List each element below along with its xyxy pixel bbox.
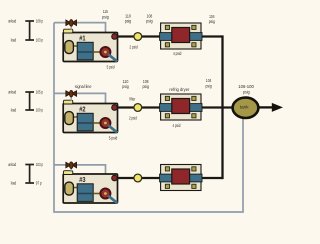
svg-text:#1: #1 bbox=[79, 33, 85, 42]
discharge node row 3 bbox=[112, 175, 118, 181]
svg-text:unload: unload bbox=[8, 18, 16, 23]
svg-text:100 p: 100 p bbox=[36, 107, 44, 112]
wire: row 1 discharge pipe bbox=[115, 35, 223, 37]
svg-text:2 psid: 2 psid bbox=[130, 45, 138, 50]
svg-text:108psig: 108psig bbox=[146, 14, 153, 24]
svg-text:103 p: 103 p bbox=[36, 37, 44, 42]
svg-text:unload: unload bbox=[8, 162, 16, 167]
filter F1 bbox=[134, 33, 142, 41]
svg-text:5 psid: 5 psid bbox=[109, 136, 118, 141]
filter F3 bbox=[134, 174, 142, 182]
dryer D2 bbox=[160, 94, 202, 120]
svg-text:2 psid: 2 psid bbox=[129, 115, 137, 120]
svg-text:5 psid: 5 psid bbox=[107, 64, 115, 69]
svg-text:refrig dryer: refrig dryer bbox=[169, 87, 189, 92]
svg-text:load: load bbox=[11, 180, 17, 185]
pressure band indicator row 2 bbox=[25, 92, 34, 110]
svg-text:signal line: signal line bbox=[75, 84, 92, 89]
compressor package #1 bbox=[63, 29, 117, 61]
svg-text:104psig: 104psig bbox=[206, 78, 213, 89]
svg-text:load: load bbox=[11, 107, 17, 112]
svg-text:104psig: 104psig bbox=[209, 14, 216, 24]
svg-text:filter: filter bbox=[130, 97, 136, 102]
compressor package #3 bbox=[63, 171, 117, 203]
inlet valve row 2 bbox=[66, 90, 77, 100]
svg-text:97 p: 97 p bbox=[36, 180, 42, 185]
svg-text:#3: #3 bbox=[79, 175, 85, 184]
svg-text:#2: #2 bbox=[79, 104, 85, 113]
svg-text:110psig: 110psig bbox=[125, 14, 132, 24]
tank bbox=[233, 98, 259, 118]
svg-text:108 p: 108 p bbox=[36, 18, 44, 23]
discharge node row 1 bbox=[112, 34, 118, 40]
svg-text:load: load bbox=[11, 37, 17, 42]
signal line trunk loop to tank bbox=[54, 23, 243, 212]
inlet valve row 3 bbox=[66, 162, 77, 172]
svg-text:108psig: 108psig bbox=[142, 79, 149, 89]
svg-text:4 psid: 4 psid bbox=[173, 123, 181, 128]
filter F2 bbox=[134, 104, 142, 112]
compressor package #2 bbox=[63, 100, 117, 132]
svg-text:tank: tank bbox=[240, 104, 250, 109]
signal line branch row 1 bbox=[54, 23, 106, 33]
inlet valve row 1 bbox=[66, 20, 77, 30]
wire: row 3 discharge pipe bbox=[115, 177, 223, 179]
wire: row 2 discharge pipe bbox=[115, 106, 233, 108]
svg-text:110psig: 110psig bbox=[122, 79, 129, 89]
dryer D1 bbox=[160, 23, 202, 49]
signal line branch row 2 bbox=[54, 93, 106, 103]
dryer D3 bbox=[160, 165, 202, 191]
svg-text:unload: unload bbox=[8, 89, 16, 94]
pressure band indicator row 3 bbox=[25, 165, 34, 184]
output arrow bbox=[258, 103, 283, 112]
pressure band indicator row 1 bbox=[25, 21, 34, 40]
svg-text:105 p: 105 p bbox=[36, 89, 44, 94]
discharge node row 2 bbox=[112, 105, 118, 111]
svg-text:4 psid: 4 psid bbox=[173, 51, 182, 56]
wire: vertical collector header bbox=[221, 35, 223, 179]
svg-text:103 p: 103 p bbox=[36, 162, 44, 167]
signal line branch row 3 bbox=[54, 165, 106, 174]
